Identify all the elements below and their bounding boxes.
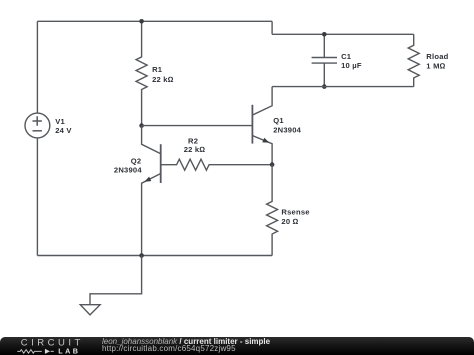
svg-text:Rload: Rload	[426, 52, 448, 61]
svg-text:R1: R1	[152, 65, 163, 74]
node ground junction	[139, 253, 144, 258]
node emitter junction	[270, 162, 275, 167]
wire top-right rail	[272, 33, 414, 35]
svg-text:2N3904: 2N3904	[273, 126, 301, 135]
footer text	[102, 338, 270, 353]
svg-text:LAB: LAB	[58, 347, 80, 355]
wire base rail to Q1	[142, 125, 253, 127]
node C1 bottom junction	[322, 84, 327, 89]
svg-text:20 Ω: 20 Ω	[281, 217, 298, 226]
wire ground tap	[90, 256, 142, 305]
node R1 top junction	[139, 19, 144, 24]
wire bottom rail	[37, 255, 272, 257]
resistor R2	[161, 159, 272, 170]
node base junction	[139, 123, 144, 128]
resistor Rsense	[267, 165, 278, 256]
ground	[80, 305, 100, 315]
resistor Rload	[408, 34, 419, 86]
svg-text:R2: R2	[188, 136, 198, 145]
svg-text:24 V: 24 V	[55, 126, 72, 135]
transistor Q2	[142, 126, 161, 256]
svg-text:C1: C1	[341, 52, 352, 61]
svg-text:V1: V1	[55, 117, 65, 126]
node C1 top junction	[322, 32, 327, 37]
transistor Q1	[252, 87, 272, 165]
resistor R1	[136, 21, 147, 125]
svg-text:Q1: Q1	[273, 116, 284, 125]
svg-text:22 kΩ: 22 kΩ	[152, 75, 174, 84]
svg-text:Rsense: Rsense	[281, 207, 309, 216]
wire top step	[271, 21, 273, 34]
voltage source V1	[25, 21, 50, 255]
wire top-left rail	[37, 20, 272, 22]
svg-text:2N3904: 2N3904	[114, 166, 142, 175]
footer bar	[0, 337, 474, 355]
capacitor C1	[312, 34, 337, 86]
svg-text:Q2: Q2	[131, 156, 142, 165]
wire C1 bottom rail	[272, 86, 414, 88]
svg-text:1 MΩ: 1 MΩ	[426, 62, 445, 71]
svg-text:10 µF: 10 µF	[341, 61, 362, 70]
CircuitLab logo	[0, 337, 100, 355]
svg-text:22 kΩ: 22 kΩ	[184, 145, 206, 154]
